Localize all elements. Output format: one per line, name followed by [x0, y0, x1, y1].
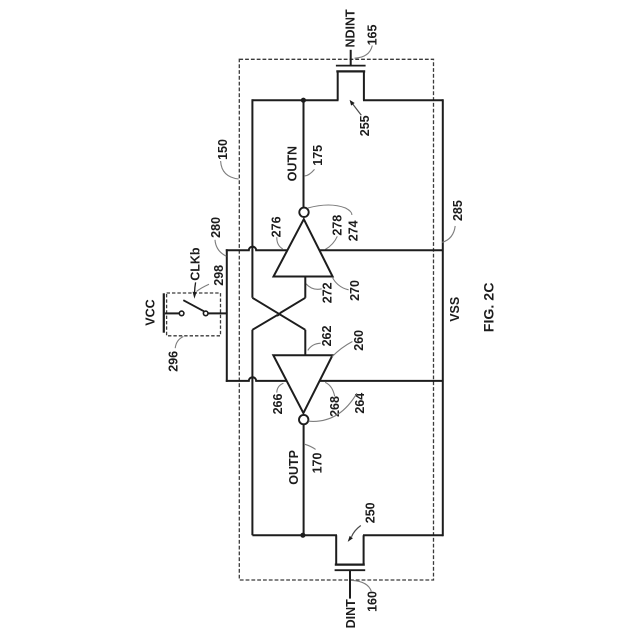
svg-text:NDINT: NDINT — [344, 9, 358, 48]
inverter U276 output bubble — [299, 208, 308, 217]
inverter U262 output bubble — [299, 415, 308, 424]
wire OUTP bottom rail left segment — [252, 534, 337, 536]
leader 280 — [215, 240, 226, 256]
svg-text:165: 165 — [365, 25, 379, 46]
svg-text:298: 298 — [212, 265, 226, 286]
switch 298 left contact — [179, 311, 184, 316]
svg-text:OUTN: OUTN — [286, 146, 300, 181]
wire U262 input stub — [304, 330, 306, 355]
svg-text:262: 262 — [320, 326, 334, 347]
supply line VSS pin of U276 (right) — [319, 249, 442, 251]
transistor 250 gate bar — [335, 569, 366, 571]
VCC rail bar — [163, 293, 165, 332]
svg-text:278: 278 — [331, 215, 345, 236]
leader 270 — [332, 277, 348, 290]
leader 278 — [325, 236, 337, 249]
dashed box 150 (circuit boundary) — [239, 59, 433, 580]
dashed box 296 (switch enclosure) — [167, 293, 221, 336]
wire cross-couple diagonal U276 input to OUTP (jog at crossing) — [252, 298, 305, 330]
svg-text:266: 266 — [271, 394, 285, 415]
leader 266 — [277, 383, 284, 392]
leader 298 — [196, 284, 209, 291]
supply line VCC pin of U276 (left, hop over cross-couple wire) — [226, 247, 288, 251]
leader 165 — [355, 46, 373, 59]
svg-text:VCC: VCC — [144, 299, 158, 325]
junction dot node OUTP — [300, 533, 305, 538]
svg-text:VSS: VSS — [448, 297, 462, 322]
switch 298 right contact — [203, 311, 208, 316]
wire switch to bus 280 — [208, 312, 227, 314]
transistor 250 channel plate — [335, 563, 365, 565]
svg-text:160: 160 — [365, 591, 379, 612]
svg-text:170: 170 — [310, 453, 324, 474]
leader arrow CLKb — [195, 282, 196, 292]
wire OUTN vertical — [303, 100, 305, 208]
inverter U276 triangle — [274, 219, 333, 276]
leader 285 — [442, 226, 455, 242]
supply line VSS pin of U262 (right) — [320, 380, 443, 382]
wire cross-couple diagonal OUTN to U262 input — [252, 298, 305, 330]
svg-text:OUTP: OUTP — [287, 450, 301, 485]
leader 260 — [332, 342, 352, 357]
svg-text:276: 276 — [270, 216, 284, 237]
svg-text:CLKb: CLKb — [189, 247, 203, 281]
wire OUTN top rail left segment — [252, 99, 338, 101]
wire bottom rail right segment — [363, 534, 443, 536]
leader 274 — [308, 205, 352, 215]
svg-text:272: 272 — [320, 282, 334, 303]
svg-text:270: 270 — [348, 280, 362, 301]
svg-text:FIG. 2C: FIG. 2C — [482, 283, 498, 333]
supply line VCC pin of U262 (left, hop over cross-couple wire) — [226, 377, 287, 381]
switch 298 blade — [183, 300, 204, 311]
svg-text:255: 255 — [358, 115, 372, 136]
leader arrow 255 — [352, 104, 361, 116]
wire VCC to switch — [165, 312, 179, 314]
wire cross-couple left vertical lower (diagonal to OUTP) — [251, 330, 253, 535]
wire VCC bus 280 vertical — [226, 249, 228, 382]
transistor 255 channel plate — [336, 70, 365, 72]
leader 160 — [352, 580, 371, 591]
leader 170 — [305, 444, 316, 449]
transistor 255 gate bar — [336, 65, 366, 67]
svg-text:DINT: DINT — [344, 599, 358, 629]
svg-text:274: 274 — [346, 220, 360, 241]
svg-text:285: 285 — [451, 200, 465, 221]
leader 268 — [325, 382, 335, 396]
leader 272 — [306, 284, 322, 290]
wire VSS right rail 285 — [442, 99, 444, 536]
wire top rail right segment — [363, 99, 443, 101]
svg-text:260: 260 — [352, 330, 366, 351]
svg-text:268: 268 — [328, 396, 342, 417]
transistor 255 gate lead NDINT — [350, 50, 352, 66]
leader 264 — [309, 393, 357, 421]
svg-text:250: 250 — [364, 502, 378, 523]
transistor 250 channel legs — [336, 535, 363, 564]
svg-text:175: 175 — [311, 145, 325, 166]
transistor 250 gate lead DINT — [349, 570, 351, 598]
wire U276 input stub — [304, 277, 306, 298]
leader arrow 250 — [352, 526, 361, 537]
wire OUTP vertical — [303, 424, 305, 535]
inverter U262 triangle — [273, 355, 332, 413]
leader 150 — [221, 161, 239, 179]
svg-text:296: 296 — [167, 351, 181, 372]
wire cross-couple left vertical upper (OUTN to diagonal) — [251, 99, 253, 298]
leader 296 — [175, 337, 183, 349]
leader 262 — [308, 343, 321, 350]
leader 276 — [277, 237, 283, 249]
transistor 255 channel legs — [338, 71, 364, 100]
svg-text:150: 150 — [216, 139, 230, 160]
junction dot node OUTN — [301, 98, 306, 103]
leader 175 — [304, 169, 314, 176]
svg-text:280: 280 — [209, 217, 223, 238]
